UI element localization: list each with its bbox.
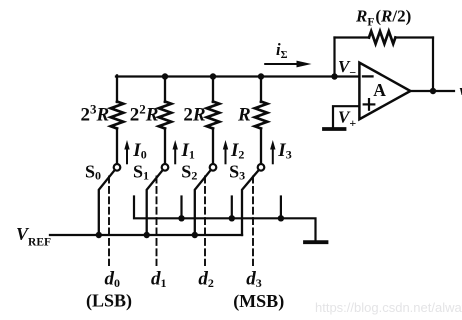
switch S1 pole contact [162, 164, 169, 171]
switch S2 pole contact [210, 164, 217, 171]
svg-text:A: A [373, 80, 386, 100]
current arrow I2 [223, 140, 228, 163]
switch S0 lever and wire to Vref bus [99, 170, 115, 235]
resistor R4 (R) [255, 102, 268, 129]
svg-text:R: R [237, 105, 251, 126]
wire: S3 ground throw stub [280, 197, 282, 219]
resistor R3 (2R) [207, 102, 220, 129]
switch S3 pole contact [258, 164, 265, 171]
svg-text:https://blog.csdn.net/alway: https://blog.csdn.net/alway [315, 300, 462, 315]
svg-text:(MSB): (MSB) [233, 291, 284, 312]
node: S2 stub on ground bus [229, 215, 235, 221]
op-amp U1 triangle [359, 63, 410, 120]
control line d1 (dashed) [156, 177, 158, 266]
wire: S1 ground throw stub [180, 197, 182, 219]
node: S1 stub on ground bus [178, 215, 184, 221]
node: R3 top junction [210, 73, 216, 79]
control line d3 (dashed) [252, 177, 254, 266]
wire: non-inverting input [333, 106, 359, 127]
switch S2 lever and wire to Vref bus [195, 170, 211, 235]
op-amp plus sign [364, 99, 375, 110]
node: S2 on Vref bus [192, 232, 198, 238]
wire: R1 top lead [116, 75, 118, 102]
svg-text:RF(R/2): RF(R/2) [355, 7, 411, 29]
wire: feedback loop left vertical [333, 38, 335, 77]
control line d2 (dashed) [204, 177, 206, 266]
wire: feedback top right segment [395, 36, 433, 38]
wire: summing bus from R1 top to op-amp inverting input [116, 75, 359, 77]
current arrow i_sigma [265, 61, 311, 68]
node: S0 on Vref bus [96, 232, 102, 238]
switch S0 pole contact [114, 164, 121, 171]
node: R2 top junction [162, 73, 168, 79]
resistor R1 (2^3 R) [111, 102, 124, 129]
node: output junction [430, 88, 436, 94]
node: S3 stub on ground bus [278, 215, 284, 221]
current arrow I1 [173, 140, 178, 163]
wire: R2 bottom lead [164, 129, 166, 164]
node: S1 on Vref bus [144, 232, 150, 238]
resistor R2 (2^2 R) [159, 102, 172, 129]
current arrow I0 [124, 140, 129, 163]
resistor RF feedback [369, 31, 395, 44]
node: inverting input junction [331, 73, 337, 79]
wire: R3 bottom lead [212, 129, 214, 164]
op-amp minus sign [363, 75, 373, 77]
switch S1 lever and wire to Vref bus [147, 170, 163, 235]
wire: R1 bottom lead [116, 129, 118, 164]
wire: op-amp output [410, 90, 454, 92]
wire: S2 ground throw stub [231, 197, 233, 219]
node: R4 top junction [258, 73, 264, 79]
wire: Vref bus [50, 234, 242, 236]
ground symbol (bus) [305, 240, 327, 244]
wire: feedback right vertical to output [432, 38, 434, 92]
wire: feedback top left segment [335, 36, 370, 38]
ground symbol (op-amp + input) [324, 127, 345, 131]
switch S3 lever and wire to Vref bus end [242, 170, 259, 235]
svg-text:(LSB): (LSB) [86, 291, 132, 312]
wire: R3 top lead [212, 75, 214, 102]
wire: R4 top lead [260, 75, 262, 102]
control line d0 (dashed) [108, 177, 110, 266]
svg-text:2R: 2R [183, 105, 205, 126]
current arrow I3 [270, 140, 275, 163]
wire: ground bus with S0 ground throw stub [134, 197, 316, 241]
wire: R2 top lead [164, 75, 166, 102]
wire: R4 bottom lead [260, 129, 262, 164]
